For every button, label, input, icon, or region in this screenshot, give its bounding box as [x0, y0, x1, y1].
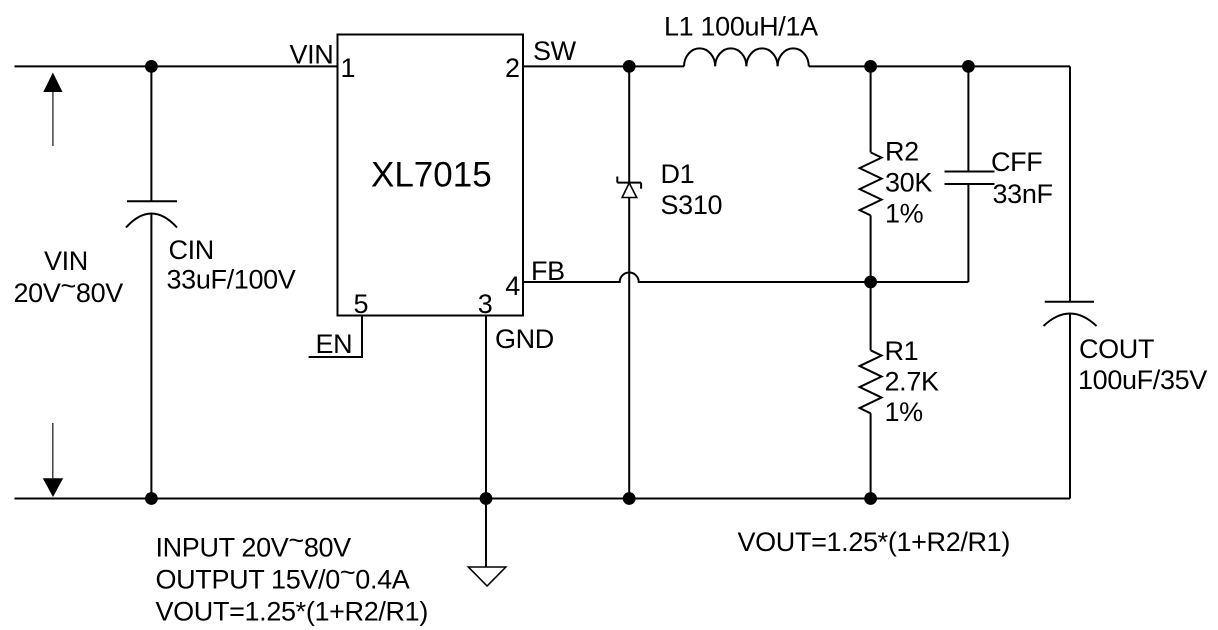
svg-text:COUT: COUT	[1079, 334, 1154, 364]
svg-text:30K: 30K	[885, 168, 932, 198]
svg-text:5: 5	[354, 289, 369, 319]
svg-text:33uF/100V: 33uF/100V	[167, 265, 296, 295]
svg-text:S310: S310	[661, 190, 723, 220]
svg-text:VOUT=1.25*(1+R2/R1): VOUT=1.25*(1+R2/R1)	[156, 597, 428, 627]
svg-text:33nF: 33nF	[993, 179, 1053, 209]
svg-text:100uF/35V: 100uF/35V	[1078, 365, 1207, 395]
svg-text:CIN: CIN	[169, 235, 214, 265]
svg-text:VIN: VIN	[290, 40, 334, 70]
svg-text:FB: FB	[531, 256, 565, 286]
svg-text:1%: 1%	[885, 199, 924, 229]
svg-text:EN: EN	[316, 329, 353, 359]
svg-text:3: 3	[478, 289, 493, 319]
svg-text:XL7015: XL7015	[371, 156, 492, 195]
svg-text:2.7K: 2.7K	[885, 367, 939, 397]
svg-text:1: 1	[341, 53, 356, 83]
svg-text:4: 4	[505, 271, 520, 301]
svg-text:2: 2	[505, 53, 520, 83]
svg-text:VOUT=1.25*(1+R2/R1): VOUT=1.25*(1+R2/R1)	[738, 527, 1010, 557]
svg-text:D1: D1	[661, 159, 695, 189]
svg-text:GND: GND	[495, 324, 554, 354]
svg-text:1%: 1%	[885, 397, 924, 427]
svg-text:L1 100uH/1A: L1 100uH/1A	[664, 12, 818, 42]
svg-text:R1: R1	[885, 336, 919, 366]
svg-text:R2: R2	[885, 137, 919, 167]
svg-text:SW: SW	[533, 36, 577, 66]
svg-text:CFF: CFF	[991, 147, 1042, 177]
